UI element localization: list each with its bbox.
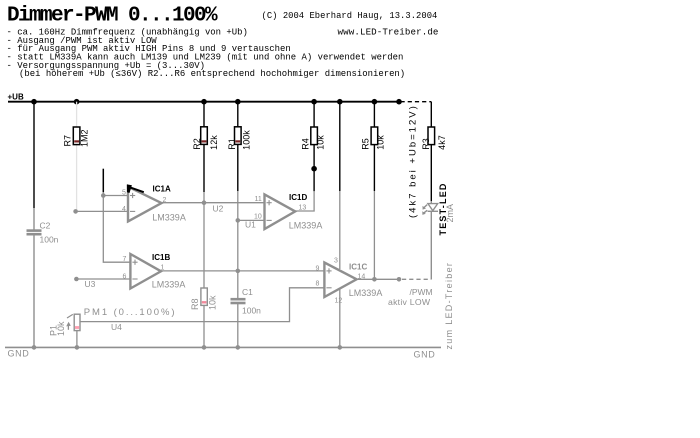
resistor R2 <box>201 127 208 145</box>
svg-text:C1: C1 <box>242 287 253 297</box>
gnd dot pot <box>75 345 80 350</box>
capacitor C2 <box>27 231 42 235</box>
node dot rail R5 <box>372 99 378 105</box>
+Ub rail dashed segment <box>401 101 432 103</box>
svg-text:R5: R5 <box>360 138 370 150</box>
svg-text:LM339A: LM339A <box>152 212 186 222</box>
svg-text:12k: 12k <box>209 135 219 150</box>
wire R8 to gnd <box>203 305 205 347</box>
svg-text:PM1 (0...100%): PM1 (0...100%) <box>84 307 177 318</box>
svg-text:5: 5 <box>122 190 126 197</box>
node dot rail R7 <box>74 99 80 105</box>
resistor R1 <box>235 127 242 145</box>
op-amp IC1B <box>130 254 161 289</box>
wire pot to gnd <box>76 331 78 348</box>
svg-text:(bei höherem +Ub (≤36V) R2...R: (bei höherem +Ub (≤36V) R2...R6 entsprec… <box>19 69 405 79</box>
wire IC1C out <box>357 278 401 280</box>
svg-text:100n: 100n <box>40 235 59 245</box>
wire pin5 IC1A <box>103 195 127 197</box>
LED TEST-LED <box>423 201 438 279</box>
svg-text:zum LED-Treiber: zum LED-Treiber <box>444 262 454 350</box>
svg-text:9: 9 <box>316 266 320 273</box>
wire C2 column gray lower <box>33 235 35 348</box>
GND rail <box>5 346 441 348</box>
svg-text:R4: R4 <box>300 138 310 150</box>
svg-text:3: 3 <box>334 257 338 264</box>
node dot C1 top <box>236 269 241 274</box>
node dot R4 mid <box>311 166 317 172</box>
op-amp IC1A <box>128 187 162 222</box>
svg-text:GND: GND <box>8 349 30 359</box>
wire R1 column black <box>237 102 239 191</box>
node dot U3 <box>74 277 79 282</box>
wire U2col gray <box>102 192 104 195</box>
svg-text:LM339A: LM339A <box>152 280 186 290</box>
svg-text:IC1A: IC1A <box>153 185 171 194</box>
node dot rail C2 <box>31 99 37 105</box>
svg-text:R8: R8 <box>190 298 200 310</box>
node dot U2/R2 <box>202 200 207 205</box>
svg-text:100k: 100k <box>242 130 252 150</box>
svg-text:www.LED-Treiber.de: www.LED-Treiber.de <box>338 26 439 37</box>
wire U1 to pin10 <box>238 219 264 221</box>
IC1B plus glyph <box>132 260 137 279</box>
wire U4 wiper <box>80 288 324 322</box>
wire C2 column black <box>33 102 35 208</box>
gnd dot C1 <box>236 345 241 350</box>
svg-text:U4: U4 <box>111 322 122 332</box>
wire R1 column gray <box>237 191 239 298</box>
IC1A plus glyph <box>130 193 135 212</box>
svg-text:10k: 10k <box>207 295 217 310</box>
wire R5 column gray <box>373 191 375 279</box>
resistor R5 <box>371 127 378 145</box>
+Ub rail <box>8 101 399 103</box>
LED arrowheads <box>423 206 427 210</box>
node dot out dash <box>397 277 402 282</box>
svg-text:11: 11 <box>255 196 262 203</box>
svg-text:4k7: 4k7 <box>437 135 447 150</box>
svg-text:10k: 10k <box>56 321 66 336</box>
wire pin3 column black <box>339 102 341 191</box>
wire pin12 column <box>339 290 341 348</box>
node dot rail R3-branch <box>396 99 402 105</box>
potentiometer P1 <box>66 314 80 330</box>
wire IC1B out to IC1C pin9 <box>161 270 324 272</box>
svg-text:GND: GND <box>414 350 436 360</box>
svg-text:R7: R7 <box>63 135 73 147</box>
node dot pin5 <box>101 193 106 198</box>
node dot rail R4 <box>311 99 317 105</box>
svg-text:10k: 10k <box>375 135 385 150</box>
node dot R7/pin4 <box>73 209 78 214</box>
node dot rail pin3 <box>337 99 343 105</box>
wire R3 to LED black <box>430 145 432 201</box>
wire down to IC1B pin7 <box>103 196 129 263</box>
wire R2 column black <box>203 102 205 192</box>
svg-text:U1: U1 <box>245 219 256 229</box>
node dot rail R2 <box>201 99 207 105</box>
node dot out R5 <box>372 277 377 282</box>
svg-text:LM339A: LM339A <box>349 288 383 298</box>
svg-text:IC1B: IC1B <box>152 253 170 262</box>
svg-text:U3: U3 <box>85 279 96 289</box>
svg-text:+UB: +UB <box>8 93 24 102</box>
svg-text:Dimmer-PWM 0...100%: Dimmer-PWM 0...100% <box>7 5 218 28</box>
svg-text:1M2: 1M2 <box>80 129 90 147</box>
wire R4 column black lower <box>313 145 315 192</box>
node dot rail R1 <box>235 99 241 105</box>
svg-text:10k: 10k <box>315 135 325 150</box>
resistor R3 <box>428 127 435 145</box>
gnd dot R8 <box>202 345 207 350</box>
wire R2 column gray <box>203 192 205 288</box>
op-amp IC1C <box>324 263 356 298</box>
op-amp IC1D <box>265 194 296 229</box>
resistor R8 <box>201 288 207 305</box>
svg-text:100n: 100n <box>242 306 261 316</box>
svg-text:R3: R3 <box>421 138 431 150</box>
svg-text:aktiv LOW: aktiv LOW <box>388 297 431 307</box>
wire U2col black <box>102 169 104 193</box>
wire C1 to gnd <box>237 303 239 347</box>
gnd dot pin12 <box>338 345 343 350</box>
wire U3 to pin6 <box>76 278 129 280</box>
svg-text:12: 12 <box>335 297 343 304</box>
svg-text:U2: U2 <box>213 203 224 213</box>
svg-text:10: 10 <box>254 214 262 221</box>
wire R7 column light <box>76 102 78 212</box>
wire IC1D out <box>295 191 314 211</box>
wire R5 column black <box>373 102 375 191</box>
svg-text:IC1D: IC1D <box>289 193 307 202</box>
resistor R4 <box>311 127 318 145</box>
gnd dot C2 <box>32 345 37 350</box>
wire R4 column top <box>313 102 315 127</box>
svg-text:R2: R2 <box>192 138 202 150</box>
capacitor C1 <box>231 299 246 303</box>
wire C2 column gray upper <box>33 208 35 230</box>
svg-text:R1: R1 <box>227 138 237 150</box>
svg-text:4: 4 <box>122 206 126 213</box>
IC1D plus glyph <box>267 200 272 220</box>
wire pin4 IC1A <box>76 210 128 212</box>
svg-text:2mA: 2mA <box>445 204 455 223</box>
node dot U1 <box>236 218 241 223</box>
wire R3 column black <box>430 102 432 127</box>
svg-text:IC1C: IC1C <box>349 262 367 271</box>
svg-text:LM339A: LM339A <box>289 220 323 230</box>
wire pin3 column gray <box>339 191 341 269</box>
svg-text:(4k7 bei +Ub=12V): (4k7 bei +Ub=12V) <box>407 104 418 218</box>
wire IC1A out U2 <box>162 202 265 204</box>
svg-text:/PWM: /PWM <box>410 287 433 297</box>
IC1A black arrow mark <box>127 184 144 193</box>
svg-text:(C) 2004 Eberhard Haug, 13.3.2: (C) 2004 Eberhard Haug, 13.3.2004 <box>262 11 438 21</box>
svg-text:7: 7 <box>123 256 127 263</box>
IC1C plus glyph <box>326 268 331 288</box>
svg-text:8: 8 <box>316 280 320 287</box>
svg-text:6: 6 <box>123 274 127 281</box>
resistor R7 <box>73 127 80 145</box>
svg-text:C2: C2 <box>40 221 51 231</box>
dashed wire /PWM <box>402 278 431 280</box>
